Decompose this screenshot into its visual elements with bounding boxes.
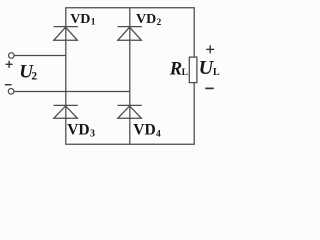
svg-text:1: 1 (91, 17, 96, 27)
wire input bottom (14, 91, 130, 93)
svg-text:3: 3 (90, 129, 95, 140)
label VD2 (136, 12, 162, 28)
svg-text:VD: VD (136, 12, 156, 27)
svg-text:L: L (182, 68, 188, 78)
label RL (169, 60, 188, 80)
diode VD3 (54, 105, 78, 118)
svg-text:2: 2 (31, 71, 37, 83)
terminal bottom (8, 89, 14, 95)
terminal top (9, 53, 15, 59)
minus output (205, 87, 214, 89)
wire load branch (193, 8, 195, 145)
svg-text:2: 2 (157, 18, 162, 28)
wire left bridge branch (65, 8, 67, 145)
svg-text:VD: VD (133, 122, 155, 139)
svg-text:4: 4 (156, 129, 161, 139)
diode VD2 (118, 27, 142, 41)
resistor RL (189, 57, 197, 83)
label VD1 (70, 12, 96, 28)
label VD3 (67, 122, 95, 140)
wire middle bridge branch (129, 8, 131, 145)
label UL (199, 57, 220, 79)
svg-text:R: R (169, 60, 182, 80)
minus input (5, 84, 12, 86)
wire input top (14, 55, 66, 57)
svg-text:L: L (213, 67, 220, 78)
label U2 (19, 62, 37, 83)
wire top rail (65, 7, 195, 9)
svg-text:VD: VD (67, 122, 89, 139)
label VD4 (133, 122, 161, 140)
plus input (6, 61, 13, 68)
plus output (206, 45, 214, 53)
diode VD4 (118, 105, 142, 118)
diode VD1 (54, 27, 78, 41)
svg-text:VD: VD (70, 12, 90, 27)
wire bottom rail (65, 143, 195, 145)
